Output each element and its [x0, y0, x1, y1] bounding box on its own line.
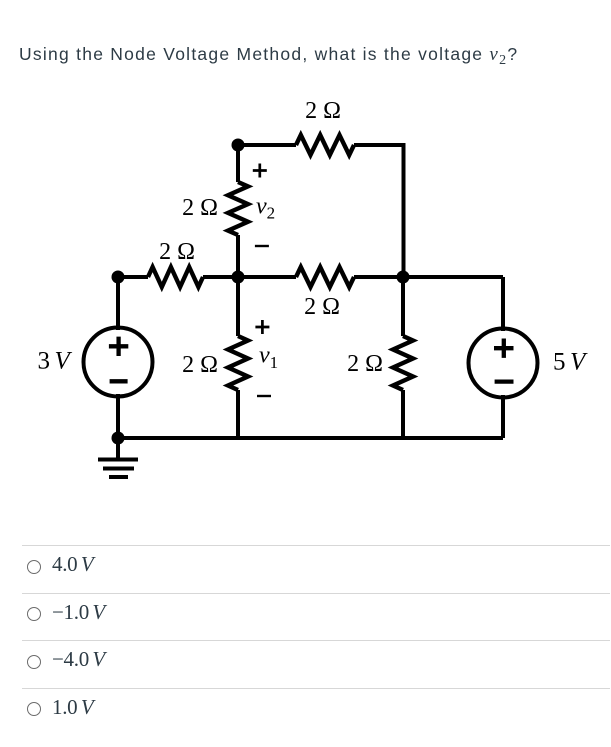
question title	[19, 45, 518, 70]
answer option radio 4	[27, 702, 41, 716]
answer option radio 2	[27, 607, 41, 621]
wire: bottom rail	[118, 436, 503, 440]
label V1 plus sign	[109, 337, 128, 356]
wire: lead from node A down to R2	[236, 145, 240, 182]
voltage source V2 5V	[469, 329, 538, 398]
answer option divider 3	[22, 640, 610, 641]
answer option text 4	[52, 697, 94, 718]
answer option radio 3	[27, 655, 41, 669]
wire: top rail left segment from node A	[238, 143, 296, 147]
resistor R5 2Ω (v1 branch)	[228, 336, 248, 390]
wire: lead from R2 down to node B	[236, 235, 240, 277]
answer option radio 1	[27, 560, 41, 574]
node B (center junction)	[232, 271, 245, 284]
label v2 minus sign	[255, 245, 269, 247]
answer option text 2	[52, 602, 105, 623]
node D (right junction)	[397, 271, 410, 284]
label V2 plus sign	[494, 339, 514, 358]
node C (left junction)	[112, 271, 125, 284]
wire: source V1 down to ground node	[116, 394, 120, 438]
svg-text:2 Ω: 2 Ω	[159, 239, 195, 265]
wire: R4 to node D and on to right corner	[354, 275, 503, 279]
svg-text:v1: v1	[259, 342, 278, 372]
label v2 plus sign	[253, 164, 267, 178]
svg-text:2 Ω: 2 Ω	[182, 352, 218, 378]
resistor R6 2Ω (right vertical)	[393, 336, 413, 390]
label V2 minus sign	[495, 379, 514, 383]
svg-text:5V: 5V	[553, 349, 588, 376]
wire: node B to R4	[238, 275, 296, 279]
wire: R6 down to bottom rail	[401, 390, 405, 438]
ground node junction	[112, 432, 125, 445]
label v1 minus sign	[257, 395, 271, 397]
wire: R5 down to bottom rail	[236, 390, 240, 438]
svg-text:2 Ω: 2 Ω	[305, 98, 341, 124]
answer option divider 2	[22, 593, 610, 594]
node A (top junction)	[232, 139, 245, 152]
svg-text:2 Ω: 2 Ω	[347, 351, 383, 377]
answer option text 3	[52, 649, 105, 670]
ground symbol	[98, 438, 138, 477]
resistor R3 2Ω (left middle)	[148, 267, 203, 287]
resistor R1 2Ω (top)	[296, 135, 354, 155]
svg-text:2 Ω: 2 Ω	[182, 195, 218, 221]
wire: top rail right segment to top-right corner	[354, 145, 404, 277]
voltage source V1 3V	[84, 328, 153, 397]
wire: source V2 down to bottom rail corner	[501, 395, 505, 438]
label v1 plus sign	[255, 320, 269, 334]
svg-text:v2: v2	[256, 194, 275, 223]
svg-text:2 Ω: 2 Ω	[304, 294, 340, 320]
wire: node D down to R6	[401, 277, 405, 336]
resistor R4 2Ω (middle horizontal)	[296, 267, 354, 287]
svg-text:3V: 3V	[38, 347, 73, 374]
wire: node B down to R5	[236, 277, 240, 336]
answer option divider 1	[22, 545, 610, 546]
answer option text 1	[52, 554, 94, 575]
wire: R3 to node B	[203, 275, 238, 279]
wire: right corner down to source V2	[501, 277, 505, 331]
wire: node C down to source V1	[116, 277, 120, 330]
resistor R2 2Ω (v2 branch)	[228, 182, 248, 235]
answer option divider 4	[22, 688, 610, 689]
label V1 minus sign	[110, 379, 128, 383]
wire: node C to R3	[118, 275, 148, 279]
